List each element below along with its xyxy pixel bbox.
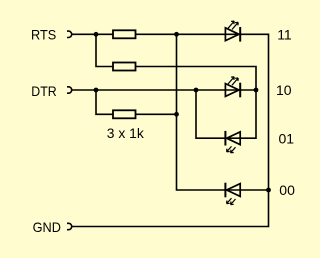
node D [194, 88, 199, 93]
svg-text:3 x 1k: 3 x 1k [107, 125, 145, 141]
wire RTS row to right bus down to GND row [72, 34, 269, 226]
LED D3 (01) [225, 131, 240, 153]
node G [266, 188, 271, 193]
svg-text:11: 11 [277, 26, 292, 42]
LED D1 (11) [225, 21, 240, 41]
wire node D down to LED3 row up to node E [196, 90, 256, 138]
node C [94, 88, 99, 93]
connector RTS [67, 31, 72, 37]
wire node C down to R3 row to node F [96, 90, 177, 114]
node B [174, 32, 179, 37]
wire DTR row [72, 89, 256, 91]
node A [94, 32, 99, 37]
node F [174, 112, 179, 117]
LED D2 (10) [225, 77, 240, 98]
svg-text:10: 10 [276, 82, 292, 98]
resistor R2 [113, 63, 136, 71]
svg-text:01: 01 [279, 131, 295, 147]
connector GND [67, 223, 72, 229]
svg-text:RTS: RTS [31, 26, 56, 42]
svg-text:GND: GND [33, 219, 61, 235]
LED D4 (00) [225, 183, 240, 205]
resistor R1 [113, 30, 136, 38]
node E [254, 88, 259, 93]
resistor R3 [113, 110, 136, 118]
svg-text:DTR: DTR [31, 83, 56, 99]
wire node A down to R2 row across to node E column [96, 34, 256, 90]
connector DTR [67, 87, 72, 93]
wire node B column down to LED4 row to node G [177, 34, 269, 190]
svg-text:00: 00 [279, 182, 295, 198]
